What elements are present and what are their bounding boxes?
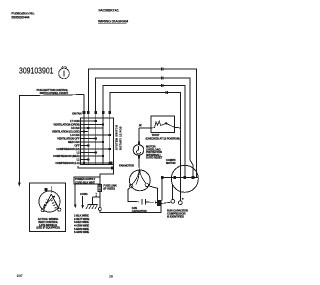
- title WIRING DIAGRAM: [98, 20, 128, 24]
- compressor label: [166, 158, 176, 165]
- vent motor symbol: [39, 186, 61, 212]
- svg-text:MED FAN: MED FAN: [68, 140, 80, 144]
- run capacitor label: [167, 209, 188, 219]
- terminal 4: [102, 111, 105, 114]
- terminal 3: [94, 111, 97, 114]
- svg-text:(CHECKED AT 12 POSITION): (CHECKED AT 12 POSITION): [146, 136, 180, 140]
- cord ring terminal: [98, 208, 101, 211]
- svg-text:COMPRESSOR (MED): COMPRESSOR (MED): [53, 154, 80, 158]
- switch position labels: [52, 119, 80, 165]
- svg-text:CORD: CORD: [80, 192, 88, 196]
- svg-text:VENTILATION (OPEN): VENTILATION (OPEN): [53, 123, 79, 127]
- bar terminal S: [173, 176, 176, 179]
- svg-text:WIRING DIAGRAM: WIRING DIAGRAM: [98, 20, 128, 24]
- wire loop 3: [103, 86, 185, 178]
- svg-text:309103901: 309103901: [19, 65, 54, 75]
- fuse F1: [98, 183, 117, 207]
- svg-text:ROTARY 12 POS: ROTARY 12 POS: [119, 126, 123, 150]
- svg-text:MOTOR: MOTOR: [166, 161, 176, 165]
- bar terminal C: [184, 176, 187, 179]
- connector tick on loop4: [166, 91, 168, 94]
- junction dot: [182, 198, 184, 200]
- motor protector circle: [133, 142, 144, 159]
- fan capacitor C1: [142, 199, 159, 204]
- thermostat caption: [146, 133, 180, 140]
- run capacitor ring 1: [171, 199, 175, 203]
- bar terminal R: [192, 176, 195, 179]
- thermostat feed wire: [139, 127, 151, 129]
- fan motor label: [119, 163, 134, 167]
- svg-text:IS IDENTIFIED: IS IDENTIFIED: [167, 215, 184, 219]
- thermostat box: [151, 116, 175, 133]
- vent control box: [30, 183, 66, 231]
- terminal 5: [109, 111, 112, 114]
- wire loop 4: [110, 93, 181, 201]
- junction to run capacitor wire: [161, 202, 171, 203]
- rotated system switch label: [115, 125, 123, 150]
- thermostat vertical to protector: [138, 128, 140, 145]
- compressor motor: [171, 165, 198, 192]
- cord arrow 1: [74, 184, 77, 208]
- svg-text:LO FAN: LO FAN: [70, 133, 79, 137]
- svg-text:CAPACITOR: CAPACITOR: [132, 209, 147, 213]
- vent control caption: [36, 217, 59, 230]
- fan motor M1: [129, 169, 150, 190]
- control box outline with arrow: [18, 95, 84, 187]
- compressor terminal bar: [162, 177, 198, 179]
- svg-text:LT COM: LT COM: [70, 119, 80, 123]
- rotary switch matrix box: [81, 118, 114, 165]
- svg-text:CORD BLK WHT: CORD BLK WHT: [75, 180, 95, 184]
- selector switch label: [37, 88, 69, 95]
- svg-text:16: 16: [109, 275, 113, 279]
- svg-text:5995320444: 5995320444: [11, 16, 29, 20]
- terminal 2: [87, 111, 90, 114]
- connector tick on loop2: [162, 77, 164, 80]
- svg-text:SYSTEM SWITCH: SYSTEM SWITCH: [115, 125, 119, 150]
- connector tick on loop3: [162, 84, 164, 87]
- svg-text:FAN: FAN: [119, 163, 124, 167]
- power wire to compressor: [100, 206, 161, 213]
- cord arrow 2: [81, 196, 84, 209]
- run capacitor ring 2: [178, 201, 182, 205]
- wire protector to fan motor: [138, 158, 140, 170]
- svg-text:(IF USED): (IF USED): [103, 187, 115, 191]
- matrix column lines: [84, 114, 110, 164]
- svg-text:COMPRESSOR (HI): COMPRESSOR (HI): [56, 147, 79, 151]
- svg-text:MOTOR: MOTOR: [125, 163, 135, 167]
- fan start winding wire: [148, 186, 157, 200]
- svg-text:BLK: BLK: [96, 192, 98, 197]
- svg-text:AUTO RESET: AUTO RESET: [146, 156, 163, 160]
- supply cord symbol: [59, 66, 70, 79]
- terminal 1: [83, 111, 86, 114]
- svg-text:TSTAT: TSTAT: [152, 133, 160, 137]
- run capacitor wire 1: [172, 185, 174, 199]
- switch exit wire: [78, 165, 114, 178]
- svg-text:1/97: 1/97: [17, 274, 23, 278]
- svg-text:6-GRN WIRE: 6-GRN WIRE: [74, 230, 89, 234]
- matrix contact dots: [83, 120, 111, 164]
- terminal bar drop wire: [161, 179, 163, 201]
- wire loop 2: [96, 78, 193, 177]
- matrix row wires: [81, 121, 111, 163]
- bar terminal L: [161, 176, 164, 179]
- svg-text:SWITCH PANEL FRONT: SWITCH PANEL FRONT: [40, 91, 69, 95]
- svg-text:VENTILATION (CLOSE): VENTILATION (CLOSE): [52, 130, 80, 134]
- svg-text:VENTILATION OFF: VENTILATION OFF: [57, 137, 80, 141]
- svg-text:COMPRESSOR (LO): COMPRESSOR (LO): [55, 161, 79, 165]
- connector tick on loop1: [162, 68, 164, 71]
- fan run winding wire: [128, 188, 139, 202]
- chassis ground: [86, 197, 100, 209]
- publication number text: [11, 11, 34, 19]
- thermostat splice mark: [139, 124, 142, 126]
- junction block: [157, 200, 161, 206]
- fan capacitor label: [132, 206, 147, 213]
- svg-text:ON FAN: ON FAN: [72, 112, 82, 116]
- wire loop 1 outermost: [88, 69, 196, 177]
- svg-text:HI FAN: HI FAN: [71, 126, 79, 130]
- thermostat output wire: [175, 126, 181, 129]
- wire color legend: [74, 214, 90, 235]
- thermostat switch symbol: [151, 121, 175, 128]
- power supply label box: [74, 177, 100, 184]
- svg-text:(SEE IF EQUIPPED): (SEE IF EQUIPPED): [36, 226, 59, 230]
- svg-text:FAC083K7A1: FAC083K7A1: [99, 9, 119, 13]
- protector labels: [146, 145, 163, 160]
- svg-text:OFF: OFF: [74, 144, 80, 148]
